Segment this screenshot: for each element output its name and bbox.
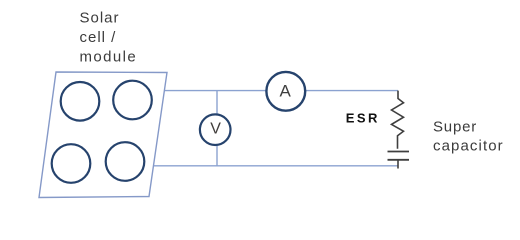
svg-text:Solar: Solar — [80, 10, 120, 27]
capacitor bottom plate — [388, 159, 410, 161]
wire: vertical voltmeter branch — [216, 91, 218, 166]
svg-text:module: module — [80, 48, 138, 65]
svg-text:A: A — [280, 81, 292, 100]
svg-text:Super: Super — [433, 118, 477, 135]
wire: bottom horizontal from solar module to capacitor — [154, 165, 398, 167]
capacitor top plate — [388, 151, 410, 153]
capacitor bottom lead — [397, 160, 399, 169]
svg-text:capacitor: capacitor — [433, 138, 504, 155]
solar cell / module parallelogram frame — [39, 72, 167, 198]
svg-text:cell /: cell / — [80, 29, 117, 46]
solar cell circle (top-left) — [61, 82, 100, 121]
svg-text:V: V — [210, 121, 221, 138]
wire: top horizontal from solar module to resistor — [164, 90, 399, 92]
svg-text:ESR: ESR — [346, 111, 380, 126]
ammeter A1 circle — [266, 72, 305, 111]
solar cell circle (bottom-left) — [52, 144, 91, 183]
resistor ESR (vertical zigzag) — [392, 91, 404, 149]
solar cell circle (top-right) — [113, 81, 152, 120]
voltmeter V1 circle — [200, 114, 231, 145]
solar cell circle (bottom-right) — [106, 142, 145, 181]
